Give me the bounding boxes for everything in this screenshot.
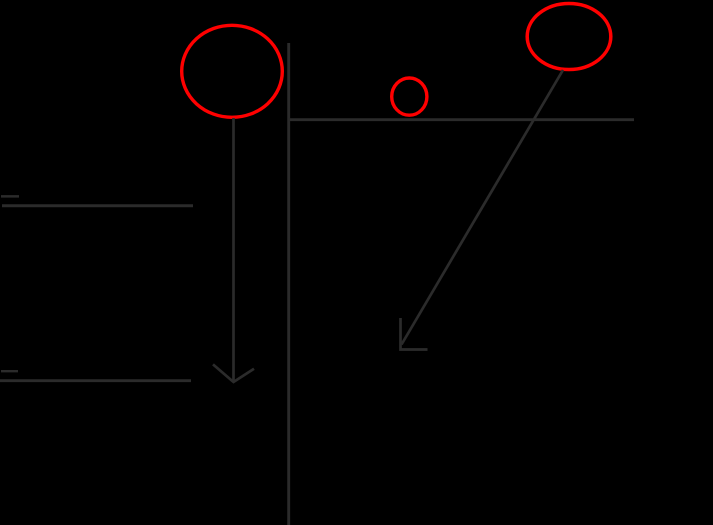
red circle small (392, 78, 427, 115)
dash lower left (1, 370, 18, 372)
arrow vertical shaft (232, 118, 235, 382)
arrow vertical head (213, 364, 254, 382)
dash upper left (1, 195, 19, 198)
arrow diagonal head (401, 318, 428, 350)
wire horizontal lower left (0, 379, 191, 382)
red ellipse big left (182, 25, 283, 117)
wire horizontal upper left (2, 204, 193, 207)
arrow diagonal shaft (402, 70, 564, 345)
red ellipse top right (527, 4, 611, 70)
wire horizontal right (289, 118, 634, 121)
wire vertical long (287, 43, 290, 525)
